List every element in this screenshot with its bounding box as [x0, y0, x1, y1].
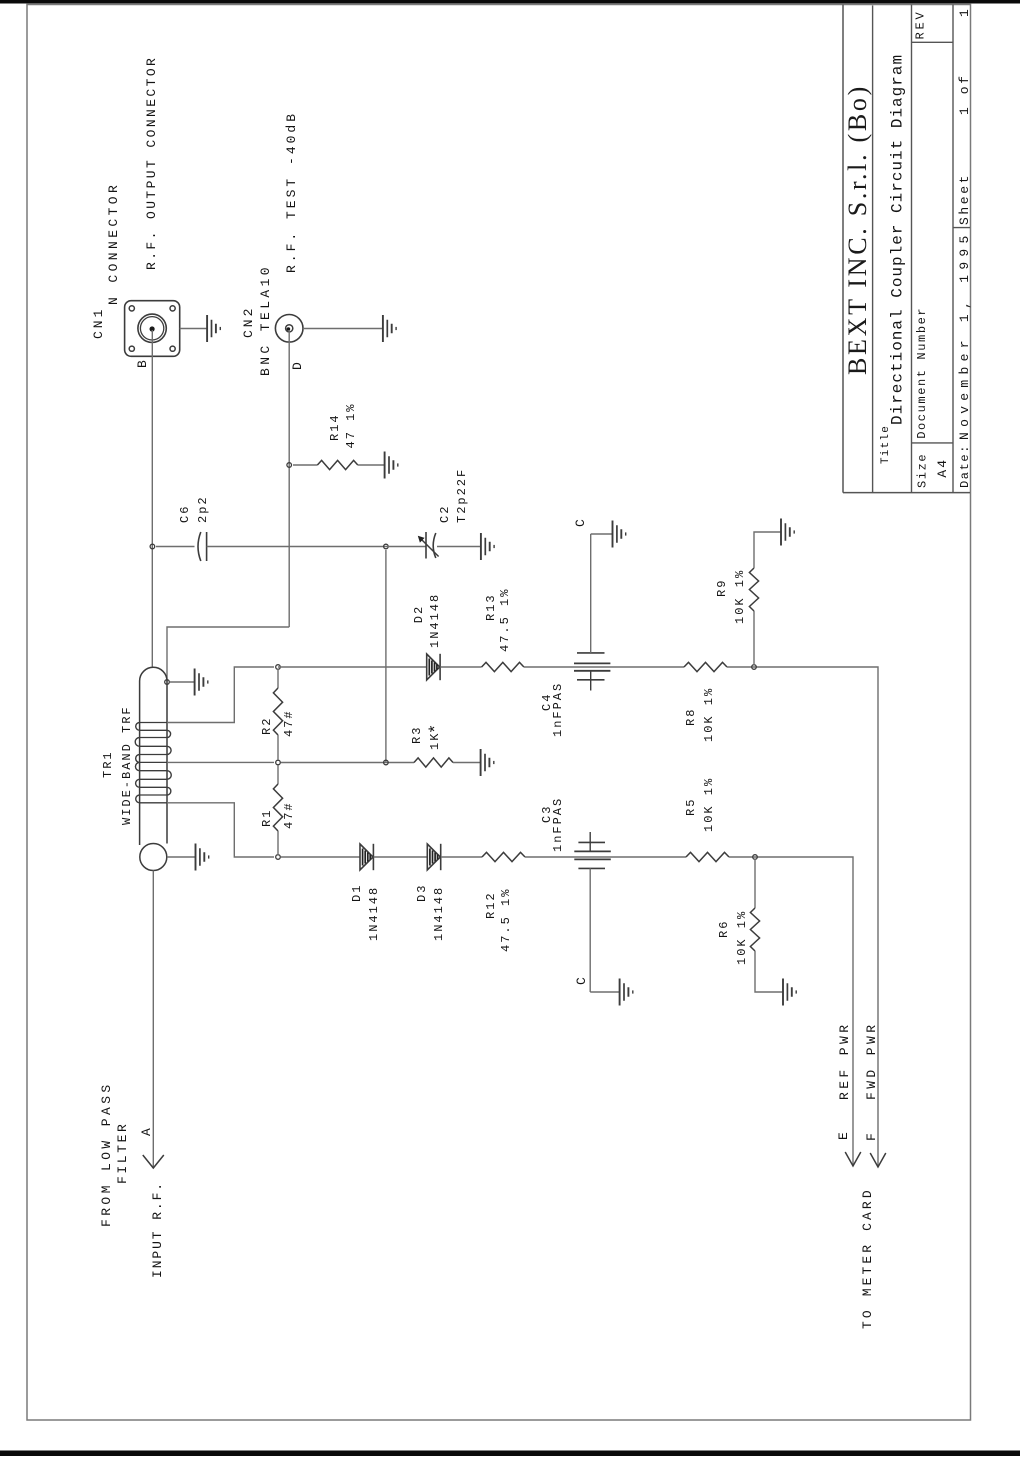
wire center tap to R3: [281, 762, 414, 764]
ground at CN2: [383, 315, 396, 342]
resistor R12: [482, 852, 525, 861]
resistor R14: [317, 460, 357, 469]
wire input line down: [152, 871, 154, 1169]
ground at R14: [385, 452, 398, 479]
svg-text:10K 1%: 10K 1%: [735, 910, 749, 965]
wire node D: CN2 down: [288, 330, 290, 627]
wire D1 to D3: [374, 856, 428, 858]
svg-text:*: *: [428, 724, 447, 734]
resistor R13: [482, 662, 524, 671]
junction R1 bottom: [276, 855, 281, 860]
svg-text:Directional Coupler Circuit Di: Directional Coupler Circuit Diagram: [889, 54, 907, 425]
wire C6 to C2 node: [207, 546, 386, 548]
wire R6 lead top: [754, 859, 756, 908]
wire net C down to C4: [590, 534, 592, 653]
resistor R9: [749, 568, 758, 611]
ground at transformer top: [195, 669, 208, 696]
arrowhead E: [845, 1152, 861, 1166]
svg-text:R2: R2: [260, 717, 274, 735]
arrowhead input A: [143, 1155, 164, 1168]
junction R2 top: [276, 665, 281, 670]
junction R9 node: [752, 665, 757, 670]
wire R3 to ground: [453, 762, 481, 764]
junction R3 node: [384, 760, 389, 765]
svg-text:November 1, 1995: November 1, 1995: [957, 230, 972, 440]
resistor R2: [273, 688, 282, 735]
diode D2: [427, 654, 440, 680]
divider company/title: [872, 6, 874, 493]
svg-text:10K 1%: 10K 1%: [702, 687, 716, 742]
wire winding top to R2 node: [167, 667, 274, 723]
capacitor C6: [198, 532, 201, 561]
svg-text:TO METER CARD: TO METER CARD: [860, 1187, 875, 1329]
svg-text:10K 1%: 10K 1%: [733, 569, 747, 624]
transformer TR1 primary bottom circle: [140, 844, 167, 871]
svg-text:A: A: [139, 1126, 154, 1136]
svg-text:C2: C2: [438, 505, 452, 523]
svg-text:1nFPAS: 1nFPAS: [551, 797, 565, 852]
ground at R3: [481, 749, 494, 776]
svg-text:A4: A4: [935, 458, 950, 478]
feedthrough capacitor C4: [574, 653, 610, 691]
connector CN1 N-type flange: [125, 301, 180, 357]
divider date/Sheet: [953, 227, 970, 229]
feedthrough capacitor C3: [574, 832, 611, 868]
svg-text:R8: R8: [684, 708, 698, 726]
svg-text:B: B: [135, 358, 150, 368]
wire transformer top to ground: [170, 681, 195, 683]
svg-text:C6: C6: [178, 505, 192, 523]
top black bar: [0, 0, 1020, 4]
connector CN2 BNC: [275, 315, 303, 343]
svg-text:BNC TELA10: BNC TELA10: [258, 264, 273, 376]
ground at C2: [481, 533, 494, 560]
svg-text:INPUT R.F.: INPUT R.F.: [150, 1181, 165, 1278]
wire R6 to ground: [755, 951, 783, 992]
ground at net C top: [613, 521, 626, 548]
svg-text:10K 1%: 10K 1%: [702, 777, 716, 832]
wire R2 node to D2: [278, 666, 427, 668]
trimmer capacitor C2: [418, 532, 439, 559]
title block bottom edge: [843, 492, 970, 494]
svg-text:Title: Title: [880, 425, 892, 464]
svg-text:D2: D2: [412, 605, 426, 623]
svg-text:Sheet: Sheet: [957, 173, 972, 225]
ground at CN1: [207, 315, 220, 342]
wire net C bottom to ground: [590, 991, 619, 993]
wire R12 to R5 through C3: [525, 856, 686, 858]
svg-text:C: C: [574, 975, 589, 985]
wire R8 to FWD corner: [727, 666, 875, 668]
junction R14 tap on D line: [287, 463, 292, 468]
wire transformer bottom circle to ground: [167, 856, 196, 858]
diode D1: [360, 844, 373, 870]
svg-text:Document Number: Document Number: [915, 307, 929, 439]
svg-text:1N4148: 1N4148: [432, 886, 446, 941]
svg-text:1nFPAS: 1nFPAS: [551, 682, 565, 737]
svg-text:D: D: [290, 360, 305, 370]
divider doc/date row: [952, 5, 954, 493]
junction R1/R2 mid: [276, 760, 281, 765]
svg-text:D3: D3: [415, 884, 429, 902]
wire R13 to R8 through C4: [524, 666, 684, 668]
svg-text:T2p22F: T2p22F: [455, 468, 469, 523]
junction C6 line on B net: [150, 544, 155, 549]
svg-text:1 of: 1 of: [957, 73, 972, 115]
wire R1 node to D1: [281, 856, 360, 858]
svg-text:WIDE-BAND TRF: WIDE-BAND TRF: [120, 705, 134, 825]
wire D3 to R12: [441, 856, 482, 858]
divider title/size-doc: [911, 5, 913, 493]
ground at transformer bottom: [196, 844, 209, 871]
svg-text:47.5 1%: 47.5 1%: [499, 888, 513, 952]
svg-text:47.5 1%: 47.5 1%: [498, 588, 512, 652]
wire net C to ground top: [591, 533, 613, 535]
wire R1 lead bottom: [277, 831, 279, 855]
svg-text:REF PWR: REF PWR: [837, 1022, 852, 1100]
wire to C2: [386, 546, 426, 548]
svg-text:R3: R3: [410, 726, 424, 744]
wire winding center tap: [167, 761, 274, 763]
resistor R1: [273, 784, 282, 831]
svg-text:47#: 47#: [282, 709, 296, 737]
svg-text:Date:: Date:: [958, 444, 972, 488]
svg-text:R.F. TEST -40dB: R.F. TEST -40dB: [284, 111, 299, 273]
wire R2 lead top: [277, 669, 279, 688]
wire R9 to ground: [754, 532, 781, 568]
svg-text:R12: R12: [484, 891, 498, 919]
svg-text:C: C: [573, 517, 588, 527]
svg-text:E: E: [836, 1130, 851, 1140]
ground at net C bottom: [620, 979, 633, 1006]
resistor R6: [750, 908, 759, 951]
svg-text:D1: D1: [350, 884, 364, 902]
divider Document Number/REV: [912, 41, 954, 43]
wire R2 lead bottom: [277, 735, 279, 760]
diode D3: [427, 844, 440, 870]
svg-text:1: 1: [957, 7, 972, 17]
svg-text:R6: R6: [717, 920, 731, 938]
svg-text:R13: R13: [484, 593, 498, 621]
wire C3 down to net C bottom: [589, 868, 591, 992]
wire FWD PWR down: [875, 667, 878, 1167]
arrowhead F: [870, 1153, 886, 1167]
svg-text:R.F. OUTPUT CONNECTOR: R.F. OUTPUT CONNECTOR: [144, 56, 159, 270]
junction transformer top to ground: [165, 680, 170, 685]
svg-text:R1: R1: [260, 809, 274, 827]
svg-text:Size: Size: [916, 453, 930, 488]
svg-text:47 1%: 47 1%: [344, 402, 358, 448]
ground at R6: [783, 979, 796, 1006]
resistor R3: [414, 758, 453, 767]
svg-text:CN1: CN1: [91, 307, 106, 339]
resistor R5: [686, 852, 729, 861]
svg-text:FROM LOW PASS: FROM LOW PASS: [99, 1081, 114, 1227]
divider Size/Document Number: [912, 442, 954, 444]
svg-text:CN2: CN2: [241, 306, 256, 338]
svg-text:F: F: [864, 1131, 879, 1141]
svg-text:1N4148: 1N4148: [428, 593, 442, 648]
ground at R9: [781, 519, 794, 546]
bottom black bar: [0, 1451, 1020, 1457]
wire C2 node down to R3 node: [385, 550, 387, 763]
wire REF PWR down: [850, 857, 853, 1166]
svg-text:2p2: 2p2: [196, 495, 210, 523]
wire R5 to REF corner: [729, 856, 850, 858]
wire CN2 step to transformer top: [167, 627, 289, 682]
wire node B: CN1 to transformer: [151, 330, 153, 667]
svg-text:1N4148: 1N4148: [367, 886, 381, 941]
transformer TR1 secondary winding: [135, 723, 171, 803]
wire R1 lead top: [277, 765, 279, 784]
svg-text:47#: 47#: [282, 801, 296, 829]
svg-text:N CONNECTOR: N CONNECTOR: [106, 182, 121, 305]
svg-text:FILTER: FILTER: [115, 1122, 130, 1184]
svg-text:FWD PWR: FWD PWR: [864, 1022, 879, 1100]
wire CN1 to ground: [180, 328, 207, 330]
svg-text:R9: R9: [715, 579, 729, 597]
wire CN2 to ground: [303, 328, 383, 330]
wire R9 lead bottom: [753, 611, 755, 665]
svg-text:REV: REV: [914, 9, 928, 39]
wire D2 to R13: [440, 666, 481, 668]
resistor R8: [684, 662, 727, 671]
svg-text:R5: R5: [684, 798, 698, 816]
wire winding bottom to R1 node: [167, 803, 274, 857]
svg-text:R14: R14: [328, 413, 342, 441]
wire to R14: [293, 464, 317, 466]
wire C2 to ground: [437, 546, 481, 548]
wire to C6: [156, 546, 195, 548]
title block left edge: [842, 5, 844, 493]
junction C2 node: [384, 544, 389, 549]
wire R14 to ground: [358, 464, 385, 466]
svg-text:BEXT INC. S.r.l. (Bo): BEXT INC. S.r.l. (Bo): [843, 84, 872, 375]
svg-text:TR1: TR1: [101, 750, 115, 778]
transformer TR1 primary tube: [140, 667, 167, 845]
junction R6 node: [753, 855, 758, 860]
